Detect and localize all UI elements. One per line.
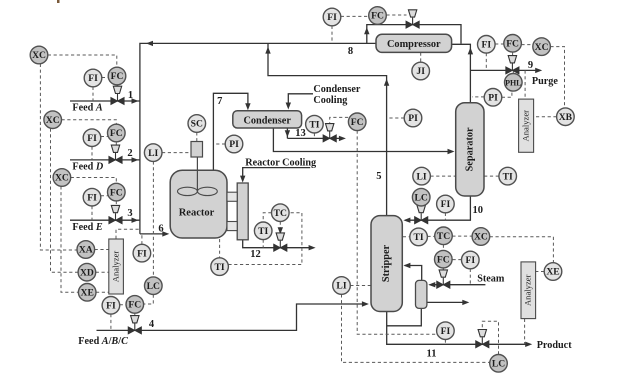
- instrument FI at (92,197.2): [83, 188, 101, 206]
- node stream label 11: [427, 349, 437, 360]
- svg-text:JI: JI: [416, 66, 425, 77]
- signal JI compressor: [420, 53, 422, 62]
- svg-text:Feed A/B/C: Feed A/B/C: [78, 336, 128, 347]
- svg-text:Steam: Steam: [477, 274, 505, 285]
- reactor cooling jacket: [237, 183, 248, 240]
- svg-text:9: 9: [528, 60, 533, 71]
- instrument FC at (512.6,43.3): [504, 35, 522, 53]
- instrument JI at (420.7,71): [412, 62, 430, 80]
- instrument TC at (280.3,212.7): [272, 204, 290, 222]
- reactor jacket stub upper: [227, 192, 237, 201]
- instrument LI at (421.6,176.1): [413, 167, 431, 185]
- instrument FI at (445.4,330.7): [437, 322, 455, 340]
- svg-text:FI: FI: [88, 73, 98, 84]
- svg-text:8: 8: [348, 46, 353, 57]
- instrument LI at (341.5,285.5): [333, 277, 351, 295]
- svg-text:XD: XD: [80, 267, 94, 278]
- wire stream 6 reactor feed: [140, 231, 169, 236]
- analyzer 2 purge: [519, 99, 534, 152]
- stripper reboiler: [416, 280, 427, 308]
- svg-text:FI: FI: [106, 301, 116, 312]
- instrument XC at (39,55): [30, 46, 48, 64]
- instrument PHL at (513.3,82.3): [505, 74, 523, 92]
- signal LC product to valve 11: [482, 321, 498, 354]
- signal LC10 to valve 10: [420, 206, 422, 210]
- wire stream 13 cooling water return: [285, 128, 346, 142]
- instrument FC at (116.3,192.1): [108, 183, 126, 201]
- valve condenser cooling stream 13: [323, 124, 336, 142]
- svg-text:XA: XA: [79, 245, 93, 256]
- svg-text:4: 4: [149, 319, 155, 330]
- svg-text:12: 12: [250, 249, 261, 260]
- reactor R vessel: [170, 170, 227, 238]
- wire feed A line stream 1: [70, 98, 140, 103]
- signal FI steam links: [452, 260, 470, 285]
- signal FI10 tick: [444, 213, 446, 220]
- svg-text:5: 5: [376, 171, 381, 182]
- label Steam: [477, 274, 505, 285]
- instrument TC at (443.5,235.8): [435, 227, 453, 245]
- signal XC3 to FC3 and analyzer column E: [61, 178, 116, 293]
- signal SC to agitator: [196, 132, 198, 141]
- svg-text:Separator: Separator: [465, 127, 476, 171]
- instrument XC at (61.9,177.5): [53, 169, 71, 187]
- svg-text:FI: FI: [327, 12, 337, 23]
- wire stream 7 reactor to condenser: [213, 93, 250, 170]
- svg-text:XC: XC: [46, 115, 60, 126]
- svg-text:LI: LI: [417, 171, 427, 182]
- wire condenser outlet to separator: [273, 128, 454, 155]
- wire feed D line stream 2: [70, 157, 140, 162]
- svg-text:Analyzer: Analyzer: [522, 274, 532, 306]
- svg-text:SC: SC: [191, 119, 203, 130]
- signal XC9 to XB: [550, 47, 564, 108]
- instrument FI at (445.4,204): [437, 195, 455, 213]
- svg-text:XE: XE: [546, 267, 559, 278]
- node stream label 4: [149, 319, 155, 330]
- instrument FI at (92,137.7): [83, 129, 101, 147]
- node stream label 13: [295, 128, 306, 139]
- node stream label 1: [128, 90, 133, 101]
- svg-text:Reactor: Reactor: [179, 208, 215, 219]
- node stream label 9: [528, 60, 533, 71]
- svg-text:PI: PI: [488, 93, 498, 104]
- signal PI reactor pressure: [214, 143, 225, 145]
- signal FI2 links: [92, 137, 108, 160]
- instrument XD at (86.9,272.2): [78, 263, 96, 281]
- wire separator vapour riser to compressor: [452, 44, 473, 103]
- signal FI11 links: [444, 340, 446, 345]
- svg-text:XB: XB: [559, 112, 573, 123]
- svg-text:3: 3: [127, 208, 132, 219]
- instrument PI at (234,144): [225, 135, 243, 153]
- reactor jacket stub lower: [227, 222, 237, 231]
- signal XC2 to FC2 and analyzer column D: [51, 120, 117, 273]
- label Feed D: [72, 162, 103, 173]
- signal TI13 tick: [313, 133, 315, 138]
- wire reactor cooling inlet: [240, 168, 310, 183]
- svg-text:PHL: PHL: [505, 79, 521, 88]
- instrument PI at (493,97.3): [484, 89, 502, 107]
- svg-text:LC: LC: [415, 192, 428, 203]
- signal TC to TI12 and valve 12: [263, 213, 283, 248]
- signal FI5 FC5 links: [111, 305, 126, 331]
- signal TC to FC steam: [442, 245, 444, 251]
- node stream label 3: [127, 208, 132, 219]
- signal analyzer 1 sample from stream 6: [116, 229, 140, 239]
- svg-text:6: 6: [158, 223, 163, 234]
- wire stream 12 cooling return: [243, 240, 316, 251]
- instrument XE at (553,271.5): [544, 263, 562, 281]
- signal analyzer 3 sample from product: [524, 319, 526, 345]
- wire reboiler bottoms return: [387, 308, 422, 326]
- svg-text:XC: XC: [535, 42, 549, 53]
- svg-text:Analyzer: Analyzer: [520, 110, 530, 142]
- signal FC13 to valve 13 and product FI: [330, 117, 438, 334]
- svg-text:FI: FI: [482, 40, 492, 51]
- signal FC3 to valve 3: [115, 201, 117, 206]
- signal XC stripper to XE: [490, 237, 554, 263]
- svg-text:11: 11: [427, 349, 437, 360]
- valve product stream 11: [476, 330, 489, 348]
- speck top: [57, 0, 60, 3]
- label Condenser Cooling: [313, 84, 360, 106]
- instrument TI at (418.6,236.9): [410, 228, 428, 246]
- signal FC steam to valve: [442, 268, 444, 270]
- signal TI reactor temperature: [220, 213, 302, 265]
- signal LC to FC5: [144, 295, 154, 305]
- svg-text:Product: Product: [537, 340, 573, 351]
- svg-text:FC: FC: [128, 300, 141, 311]
- signal FC5 to valve 4: [134, 313, 136, 316]
- svg-text:FI: FI: [87, 133, 97, 144]
- svg-text:FC: FC: [110, 128, 123, 139]
- signal PI separator: [472, 96, 484, 98]
- signal TI separator: [484, 175, 499, 177]
- valve feed D stream 2: [109, 145, 122, 163]
- instrument FI at (470.3,260): [462, 251, 480, 269]
- svg-text:XC: XC: [474, 232, 488, 243]
- svg-text:Purge: Purge: [532, 76, 559, 87]
- label Feed A/B/C: [78, 336, 128, 347]
- wire reboiler condensate: [427, 300, 469, 305]
- signal FI3 links: [92, 196, 108, 220]
- svg-text:Stripper: Stripper: [381, 244, 392, 282]
- reactor agitator motor: [191, 142, 203, 158]
- stripper vessel: [371, 216, 402, 312]
- valve separator bottoms stream 10: [415, 205, 428, 223]
- svg-text:TC: TC: [437, 231, 450, 242]
- node stream label 10: [473, 205, 484, 216]
- instrument LC at (421.2,197.2): [412, 188, 430, 206]
- instrument PI at (413,118): [404, 109, 422, 127]
- svg-text:FI: FI: [87, 192, 97, 203]
- valve feed A stream 1: [111, 86, 124, 104]
- node stream label 6: [158, 223, 163, 234]
- reactor agitator shaft: [196, 157, 198, 190]
- signal FI1 links: [93, 78, 108, 102]
- wire stream 11 product line: [387, 312, 533, 348]
- instrument XC at (52.7,119.7): [44, 111, 62, 129]
- instrument FC at (117,76): [108, 67, 126, 85]
- instrument FC at (443.3,259.2): [435, 250, 453, 268]
- label Feed A: [72, 103, 102, 114]
- instrument FC at (116.3,133): [108, 124, 126, 142]
- svg-text:FI: FI: [137, 248, 147, 259]
- analyzer 3 product: [521, 262, 536, 319]
- signal FI6 to stream 6: [141, 234, 143, 244]
- node stream label 5: [376, 171, 381, 182]
- node stream label 7: [217, 96, 222, 107]
- svg-text:Analyzer: Analyzer: [110, 251, 120, 283]
- svg-text:Feed A: Feed A: [72, 103, 102, 114]
- valve purge stream 9: [506, 56, 519, 74]
- wire stream 9 purge line: [470, 68, 542, 73]
- svg-text:7: 7: [217, 96, 222, 107]
- label Reactor Cooling: [245, 157, 316, 168]
- instrument XE at (87.2,292.3): [78, 284, 96, 302]
- signal PHL links: [502, 71, 514, 98]
- svg-text:LI: LI: [336, 281, 346, 292]
- valve compressor bypass: [406, 10, 419, 28]
- reactor agitator blades: [178, 187, 218, 195]
- svg-text:FC: FC: [506, 39, 519, 50]
- instrument XB at (565.4,116.7): [557, 108, 575, 126]
- instrument FC at (357.2,121.8): [348, 113, 366, 131]
- instrument XA at (85.8,249.5): [77, 241, 95, 259]
- label Product: [537, 340, 573, 351]
- instrument TI at (263.2,230.8): [254, 222, 272, 240]
- instrument SC at (196.8,123.5): [188, 115, 206, 133]
- wire condenser cooling inlet: [286, 94, 313, 110]
- signal XB to analyzer 2: [534, 116, 557, 118]
- svg-text:13: 13: [295, 128, 306, 139]
- svg-text:TC: TC: [274, 208, 287, 219]
- svg-text:Cooling: Cooling: [313, 95, 347, 106]
- instrument LC at (153.3,285.7): [145, 277, 163, 295]
- instrument FI at (486.3,44.3): [478, 36, 496, 54]
- signal TI TC XC stripper row: [403, 235, 472, 238]
- svg-text:FI: FI: [441, 326, 451, 337]
- instrument TI at (507.7,176.1): [499, 167, 517, 185]
- svg-text:FC: FC: [437, 254, 450, 265]
- svg-text:LC: LC: [147, 281, 160, 292]
- svg-text:PI: PI: [408, 113, 418, 124]
- signal XE to analyzer 3: [536, 271, 544, 273]
- svg-text:LI: LI: [148, 148, 158, 159]
- node stream label 2: [127, 148, 132, 159]
- svg-text:1: 1: [128, 90, 133, 101]
- signal FC9 to valve 9: [512, 52, 514, 55]
- svg-text:LC: LC: [492, 359, 505, 370]
- svg-text:FC: FC: [371, 11, 384, 22]
- instrument TI at (314.4,124.2): [306, 115, 324, 133]
- signal analyzer 2 sample from purge: [524, 70, 526, 99]
- instrument FI at (110.9,305.3): [102, 297, 120, 315]
- svg-text:XC: XC: [55, 173, 69, 184]
- svg-text:TI: TI: [503, 171, 513, 182]
- wire reboiler vapour return: [403, 263, 421, 281]
- signal XC1 to FC1 and analyzer column A: [40, 55, 116, 250]
- svg-text:TI: TI: [414, 232, 424, 243]
- instrument XC at (480.9,236.5): [472, 228, 490, 246]
- instrument FC at (134.8,304.4): [126, 296, 144, 314]
- wire stream 8 recycle header: [140, 41, 376, 234]
- condenser unit: [233, 111, 302, 128]
- svg-text:Compressor: Compressor: [387, 39, 441, 50]
- svg-text:XE: XE: [81, 288, 94, 299]
- signal PI5 to riser: [387, 117, 405, 119]
- valve feed A/B/C stream 4: [128, 316, 141, 334]
- svg-text:TI: TI: [215, 262, 225, 273]
- instrument FI at (93,78): [84, 69, 102, 87]
- wire stream 10 separator bottoms: [403, 196, 470, 223]
- compressor unit: [376, 34, 452, 52]
- svg-text:FC: FC: [111, 71, 124, 82]
- signal XA to analyzer 1: [95, 249, 109, 251]
- signal LI separator: [430, 175, 455, 177]
- signal XD to analyzer 1: [96, 271, 109, 273]
- instrument FC at (377.5,15.5): [369, 7, 387, 25]
- analyzer 1 feed: [109, 239, 124, 294]
- signal FC9 XC9 link: [521, 44, 532, 46]
- svg-text:TI: TI: [309, 119, 319, 130]
- svg-text:FI: FI: [466, 255, 476, 266]
- wire stream 5 stripper overhead: [265, 44, 389, 216]
- wire steam line: [428, 282, 485, 287]
- svg-text:10: 10: [473, 205, 484, 216]
- valve steam: [437, 270, 450, 288]
- instrument XC at (541.6,46.6): [533, 38, 551, 56]
- svg-text:Condenser: Condenser: [313, 84, 360, 95]
- signal LI stripper: [342, 286, 490, 363]
- wire feed E line stream 3: [70, 218, 140, 223]
- separator vessel: [456, 103, 484, 196]
- signal FI9 links: [486, 44, 504, 70]
- svg-text:Feed E: Feed E: [72, 222, 102, 233]
- instrument LI at (153.2,152.6): [144, 144, 162, 162]
- signal FI8 FC8 valve links: [332, 15, 407, 43]
- svg-text:FC: FC: [110, 187, 123, 198]
- node stream label 8: [348, 46, 353, 57]
- svg-text:2: 2: [127, 148, 132, 159]
- signal FC1 to valve 1: [116, 85, 118, 87]
- svg-text:XC: XC: [32, 50, 46, 61]
- svg-text:Feed D: Feed D: [72, 162, 103, 173]
- svg-text:TI: TI: [258, 226, 268, 237]
- valve feed E stream 3: [109, 205, 122, 223]
- wire feed A/B/C line stream 4: [97, 301, 369, 330]
- instrument FI at (332,17): [323, 8, 341, 26]
- instrument LC at (498.5,363.3): [490, 355, 508, 373]
- signal XE to analyzer 1: [96, 291, 109, 293]
- label Feed E: [72, 222, 102, 233]
- svg-text:FI: FI: [441, 199, 451, 210]
- signal FC2 to valve 2: [115, 142, 117, 146]
- signal LI reactor level: [153, 153, 190, 277]
- instrument FI at (141.9,253.1): [133, 244, 151, 262]
- valve reactor cooling stream 12: [274, 233, 287, 251]
- node stream label 12: [250, 249, 261, 260]
- svg-text:Reactor Cooling: Reactor Cooling: [245, 157, 316, 168]
- svg-text:PI: PI: [229, 139, 239, 150]
- label Purge: [532, 76, 559, 87]
- instrument TI at (219.6,266.6): [211, 258, 229, 276]
- svg-text:Condenser: Condenser: [243, 115, 291, 126]
- wire compressor bypass: [364, 25, 461, 44]
- svg-text:FC: FC: [351, 117, 364, 128]
